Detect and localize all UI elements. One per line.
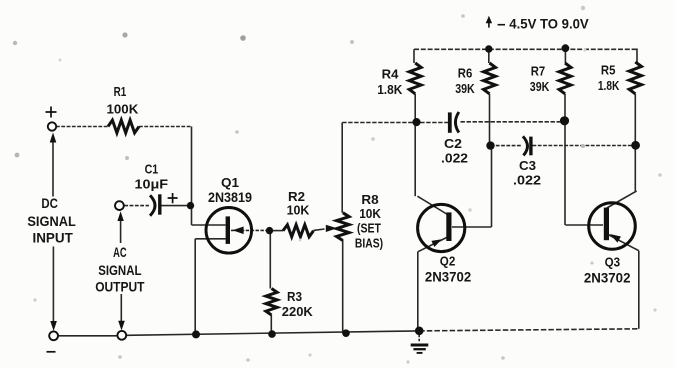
- svg-text:100K: 100K: [107, 102, 139, 117]
- svg-text:C2: C2: [444, 136, 462, 151]
- svg-text:C1: C1: [145, 162, 159, 177]
- svg-text:10K: 10K: [359, 206, 381, 221]
- svg-text:39K: 39K: [455, 81, 475, 96]
- svg-text:4.5V TO 9.0V: 4.5V TO 9.0V: [509, 16, 589, 31]
- svg-text:C3: C3: [519, 158, 536, 173]
- svg-text:39K: 39K: [530, 79, 550, 94]
- svg-text:DC: DC: [41, 195, 58, 211]
- svg-text:Q1: Q1: [221, 175, 239, 190]
- svg-text:SIGNAL: SIGNAL: [98, 262, 142, 278]
- svg-text:R7: R7: [531, 64, 546, 79]
- svg-text:R8: R8: [361, 192, 378, 207]
- svg-text:220K: 220K: [282, 304, 313, 319]
- svg-text:1.8K: 1.8K: [377, 82, 403, 97]
- svg-text:OUTPUT: OUTPUT: [95, 279, 145, 295]
- svg-text:R1: R1: [114, 84, 127, 99]
- svg-text:10μF: 10μF: [135, 177, 169, 192]
- svg-text:Q3: Q3: [605, 255, 621, 270]
- svg-text:R3: R3: [287, 289, 302, 304]
- svg-text:SIGNAL: SIGNAL: [27, 213, 76, 229]
- svg-text:R4: R4: [382, 67, 399, 82]
- svg-text:2N3702: 2N3702: [584, 270, 631, 285]
- svg-text:BIAS): BIAS): [355, 235, 383, 250]
- svg-text:10K: 10K: [287, 203, 310, 218]
- svg-text:Q2: Q2: [440, 254, 456, 269]
- svg-text:2N3819: 2N3819: [208, 190, 252, 205]
- svg-text:(SET: (SET: [357, 221, 381, 236]
- svg-text:1.8K: 1.8K: [598, 78, 620, 93]
- svg-text:R5: R5: [601, 63, 616, 78]
- svg-text:R6: R6: [458, 66, 473, 81]
- svg-text:INPUT: INPUT: [33, 229, 74, 245]
- svg-text:.022: .022: [513, 172, 541, 187]
- svg-text:2N3702: 2N3702: [425, 270, 472, 285]
- svg-text:AC: AC: [113, 244, 127, 260]
- svg-text:.022: .022: [441, 150, 468, 165]
